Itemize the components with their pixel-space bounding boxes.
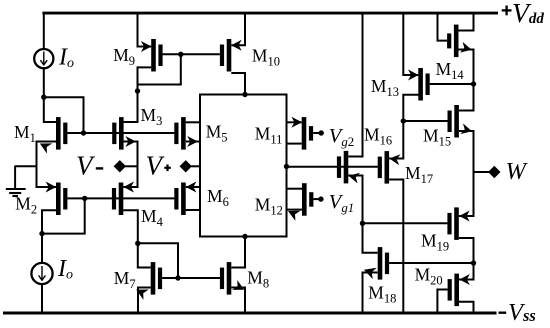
arrow M18 source bbox=[364, 268, 377, 279]
arrow M19 source bbox=[459, 211, 470, 222]
svg-text:M10: M10 bbox=[252, 46, 280, 69]
svg-text:Io: Io bbox=[58, 45, 74, 72]
svg-text:M12: M12 bbox=[255, 194, 283, 217]
transistor M8 bbox=[220, 262, 231, 295]
wire M15 source to W node to M19 source bbox=[459, 131, 474, 216]
arrow M9 source bbox=[141, 41, 152, 52]
svg-text:M14: M14 bbox=[436, 59, 465, 82]
transistor M5 bbox=[174, 117, 185, 150]
node K junction dot bbox=[471, 260, 476, 265]
arrow M8 source bbox=[232, 280, 244, 290]
arrow M20 source bbox=[459, 274, 470, 285]
wire M5 source bbox=[186, 141, 200, 143]
wire M8 drain to box bbox=[231, 237, 245, 268]
transistor M4 bbox=[112, 183, 123, 216]
wire M6 source bbox=[186, 186, 200, 188]
node Vg1 dot bbox=[318, 196, 323, 201]
transistor M18 bbox=[378, 247, 389, 280]
svg-text:M20: M20 bbox=[415, 264, 443, 287]
node J junction dot bbox=[471, 81, 476, 86]
svg-text:M17: M17 bbox=[405, 163, 433, 186]
wire M16 source to M18 drain bbox=[348, 176, 377, 253]
wire V- stub bbox=[125, 165, 138, 167]
svg-text:V: V bbox=[146, 151, 166, 181]
wire M12 source bbox=[287, 209, 303, 211]
ground bbox=[6, 166, 26, 196]
svg-text:M7: M7 bbox=[114, 268, 136, 291]
arrow M2 source bbox=[46, 182, 57, 193]
arrow M11 source bbox=[291, 117, 302, 128]
transistor M10 bbox=[220, 39, 231, 72]
wire Vdd to M14 gate bbox=[438, 14, 448, 41]
wire Vdd to M16 drain bbox=[348, 14, 362, 157]
wire M2 drain to Io bottom bbox=[42, 210, 56, 263]
svg-text:M16: M16 bbox=[364, 125, 392, 148]
gate line to M15 bbox=[403, 120, 447, 122]
label -Vss bbox=[499, 312, 507, 314]
transistor M2 bbox=[56, 183, 67, 216]
svg-text:Io: Io bbox=[57, 256, 73, 283]
power rail +Vdd bbox=[42, 12, 498, 15]
transistor M12 bbox=[302, 183, 313, 216]
wire M7 diode connection bbox=[138, 243, 178, 278]
wire M18 source to Vss bbox=[363, 273, 378, 313]
gate line M1-M3-M5 bbox=[67, 132, 174, 134]
wire M7 source to Vss bbox=[138, 288, 151, 313]
gate line M13 to node J bbox=[430, 83, 474, 85]
gate line M9-M10 bbox=[163, 53, 220, 55]
wire Vdd to M10 source bbox=[231, 14, 245, 45]
wire M11 gate stub Vg2 bbox=[313, 132, 319, 134]
arrow M14 source bbox=[460, 42, 472, 53]
svg-text:M9: M9 bbox=[113, 45, 135, 68]
wire Vdd to M14 drain bbox=[459, 14, 474, 31]
svg-text:M4: M4 bbox=[141, 206, 164, 229]
wire Io bottom to Vss bbox=[41, 284, 43, 312]
arrow M1 source bbox=[40, 143, 52, 153]
node M9/M10 gate dot bbox=[178, 52, 183, 57]
wire M12 drain bbox=[287, 188, 303, 190]
wire to ground bbox=[15, 165, 37, 167]
node box-top junction dot bbox=[242, 92, 247, 97]
wire Vdd to Io top bbox=[43, 14, 45, 50]
wire node A to M1/M3 gate line bbox=[43, 97, 84, 134]
node C junction dot bbox=[39, 231, 44, 236]
node G junction dot bbox=[284, 164, 289, 169]
wire Vdd to M13 source bbox=[403, 14, 418, 75]
node box-bottom junction dot bbox=[242, 234, 247, 239]
wire M1 source to M2 source bbox=[37, 142, 57, 188]
transistor M19 bbox=[447, 207, 458, 240]
arrow M17 source bbox=[389, 154, 400, 165]
wire M17 source from M13 drain bbox=[389, 95, 419, 159]
svg-text:M11: M11 bbox=[255, 124, 283, 147]
wire M20 drain to Vss bbox=[459, 302, 474, 312]
transistor M3 bbox=[112, 117, 123, 150]
transistor M14 bbox=[447, 25, 458, 58]
node M7/M8 gate dot bbox=[175, 275, 180, 280]
wire Io top to node A and M1 drain bbox=[44, 68, 57, 122]
arrow M6 source bbox=[186, 182, 197, 193]
node V- diamond bbox=[114, 160, 126, 172]
transistor M17 bbox=[378, 151, 389, 184]
transistor M13 bbox=[418, 68, 429, 101]
wire M6 drain bbox=[186, 209, 200, 211]
wire M11 drain bbox=[287, 143, 302, 145]
arrow M10 source bbox=[231, 40, 242, 51]
svg-text:V: V bbox=[76, 151, 96, 181]
arrow M5 source bbox=[187, 136, 198, 147]
svg-text:M5: M5 bbox=[206, 122, 228, 145]
wire M5 drain bbox=[186, 121, 200, 123]
wire M8 source to Vss bbox=[231, 288, 245, 313]
svg-text:Vss: Vss bbox=[508, 299, 536, 326]
node W diamond bbox=[488, 166, 500, 178]
transistor M15 bbox=[448, 105, 459, 138]
power rail -Vss bbox=[3, 311, 497, 314]
transistor M1 bbox=[56, 117, 67, 150]
wire cascode box bbox=[200, 95, 287, 237]
transistor M6 bbox=[174, 183, 185, 216]
arrow M16 source bbox=[349, 173, 361, 184]
node I junction dot bbox=[401, 118, 406, 123]
wire M14 source to node J and M15 drain bbox=[459, 50, 474, 111]
wire M3 source to V- node to M4 source bbox=[123, 142, 137, 188]
wire M20 gate to Vss bbox=[437, 290, 447, 313]
svg-text:Vg1: Vg1 bbox=[329, 191, 354, 215]
wire M10 drain to cascode box bbox=[231, 73, 245, 96]
wire M11 source from box bbox=[287, 121, 302, 123]
wire M17 drain to Vss bbox=[389, 180, 403, 313]
svg-text:M15: M15 bbox=[423, 125, 451, 148]
label +Vdd bbox=[502, 9, 512, 11]
svg-text:M2: M2 bbox=[15, 194, 37, 217]
svg-text:M3: M3 bbox=[141, 105, 163, 128]
wire W stub bbox=[474, 171, 490, 173]
gate line M16-M17 bbox=[287, 166, 382, 168]
arrow M13 source bbox=[408, 70, 419, 81]
transistor M16 bbox=[337, 151, 348, 184]
svg-text:M18: M18 bbox=[368, 283, 396, 306]
node Vg2 dot bbox=[319, 130, 324, 135]
transistor M11 bbox=[302, 117, 313, 150]
node H junction dot bbox=[360, 221, 365, 226]
svg-text:W: W bbox=[506, 158, 529, 185]
node B junction dot bbox=[81, 130, 86, 135]
wire V+ stub bbox=[191, 165, 200, 167]
gate line M2-M4-M6 bbox=[67, 197, 174, 199]
arrow M3 source bbox=[125, 136, 136, 147]
node E junction dot bbox=[135, 88, 140, 93]
wire M4 drain to M7 drain bbox=[123, 210, 150, 267]
svg-text:Vg2: Vg2 bbox=[329, 125, 354, 149]
wire M2 diode connection to gate bbox=[42, 199, 85, 234]
svg-text:M13: M13 bbox=[371, 76, 399, 99]
wire M9 drain to M3 drain bbox=[124, 67, 152, 122]
node A junction dot bbox=[41, 95, 46, 100]
arrow M12 source bbox=[288, 211, 300, 221]
gate line to M19 bbox=[363, 222, 448, 224]
node V+ diamond bbox=[180, 160, 192, 172]
gate line M7-M8 bbox=[162, 277, 220, 279]
svg-text:M6: M6 bbox=[207, 186, 229, 209]
wire M9 diode connection bbox=[138, 53, 181, 84]
svg-text:M1: M1 bbox=[14, 122, 36, 145]
svg-text:Vdd: Vdd bbox=[512, 0, 544, 28]
arrow M4 source bbox=[123, 182, 134, 193]
wire M19 drain to node K to M20 source bbox=[459, 238, 474, 280]
wire M12 gate stub Vg1 bbox=[314, 198, 319, 200]
arrow M7 source bbox=[136, 290, 149, 300]
node D junction dot bbox=[82, 196, 87, 201]
transistor M20 bbox=[448, 274, 459, 307]
gate line M18 to node K bbox=[389, 262, 473, 264]
arrow M15 source bbox=[460, 123, 472, 134]
current source Io (top) bbox=[34, 49, 53, 68]
node F junction dot bbox=[135, 241, 140, 246]
svg-text:M19: M19 bbox=[421, 231, 449, 254]
current source Io (bottom) bbox=[31, 263, 52, 284]
transistor M9 bbox=[151, 39, 162, 72]
svg-text:M8: M8 bbox=[247, 268, 269, 291]
transistor M7 bbox=[151, 262, 162, 295]
wire Vdd to M9 source bbox=[138, 14, 152, 47]
